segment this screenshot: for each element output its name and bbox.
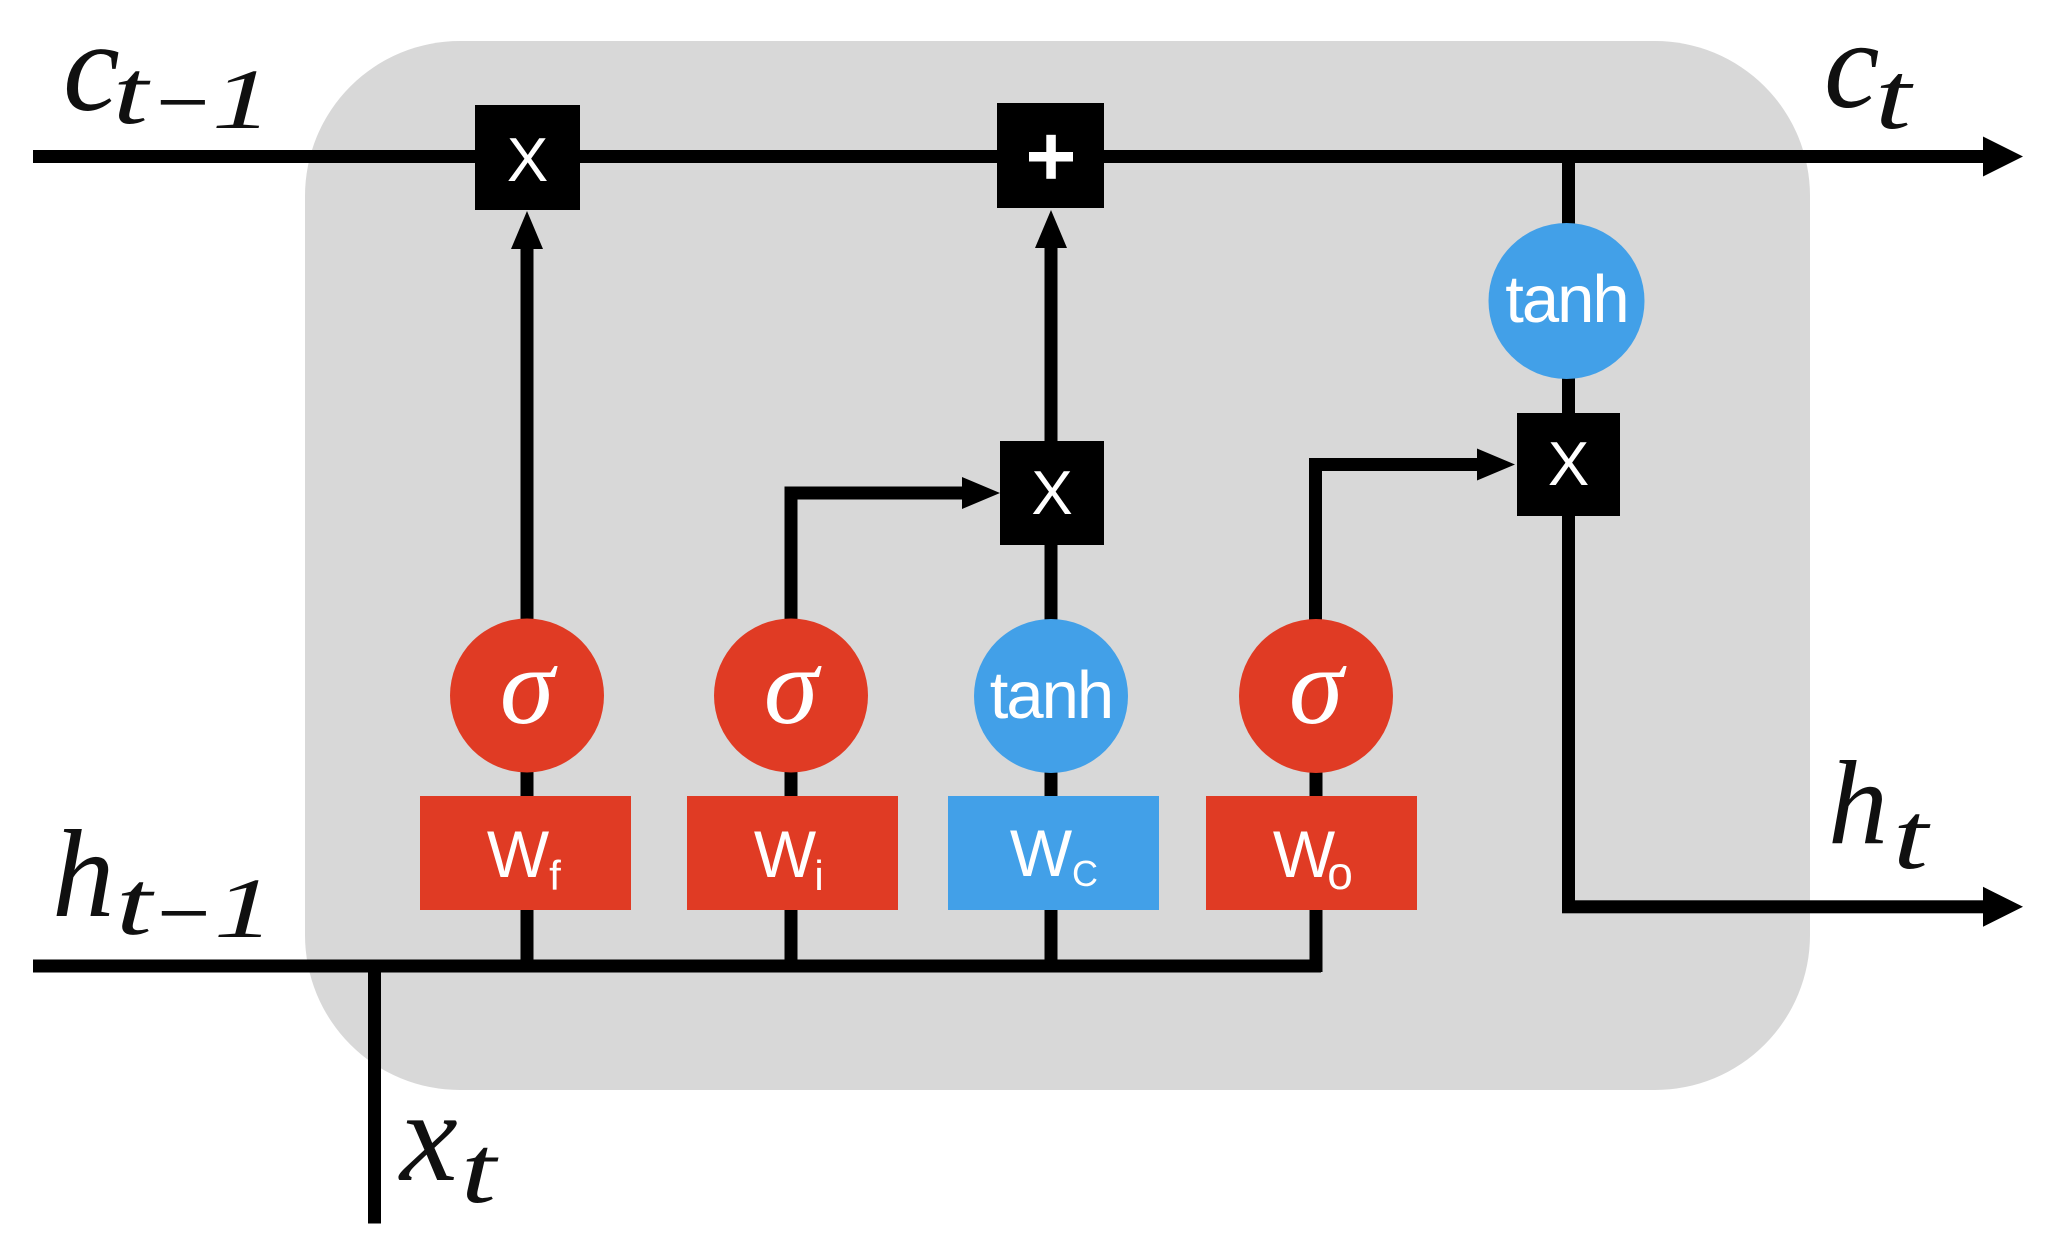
wire Wi to h(t-1) line bbox=[785, 908, 798, 963]
arrowhead into plus box bbox=[1035, 210, 1067, 248]
svg-text:h: h bbox=[1828, 736, 1888, 869]
sigma activation circle 4 (output gate) bbox=[1239, 619, 1393, 773]
svg-text:f: f bbox=[549, 852, 561, 899]
svg-text:X: X bbox=[1548, 430, 1589, 499]
multiply operator box 2 (input) bbox=[1000, 441, 1104, 545]
svg-text:W: W bbox=[1010, 816, 1073, 890]
svg-text:σ: σ bbox=[500, 625, 558, 747]
svg-text:1: 1 bbox=[214, 860, 274, 956]
svg-text:c: c bbox=[63, 0, 120, 138]
svg-text:−: − bbox=[151, 862, 215, 964]
svg-text:t: t bbox=[461, 1116, 499, 1223]
wire: c line down through tanh(top) to multiply box 4 bbox=[1562, 160, 1575, 225]
add operator box bbox=[997, 103, 1104, 208]
wire multiply box 4 down to h(t) line bbox=[1562, 514, 1575, 913]
svg-text:t: t bbox=[1875, 42, 1914, 149]
weight box Wi bbox=[687, 796, 898, 910]
sigma activation circle 2 (input gate) bbox=[714, 619, 868, 773]
svg-text:tanh: tanh bbox=[990, 658, 1112, 733]
svg-text:W: W bbox=[754, 817, 817, 891]
arrowhead c(t) bbox=[1983, 137, 2023, 177]
wire: candidate column vertical (multiply box 2 up to plus box) bbox=[1045, 248, 1058, 443]
wire sigma1 to Wf bbox=[521, 770, 534, 800]
wire: output gate column vertical (sigma4 up to bend) bbox=[1309, 458, 1322, 621]
weight box Wf bbox=[420, 796, 631, 910]
wire bend horizontal into multiply box 3 bbox=[1309, 458, 1481, 471]
weight box WC bbox=[948, 796, 1159, 910]
weight box Wo bbox=[1206, 796, 1417, 910]
wire tanh circle to WC bbox=[1045, 772, 1058, 800]
svg-text:tanh: tanh bbox=[1505, 262, 1627, 337]
multiply operator box 1 (forget) bbox=[475, 105, 580, 210]
wire x(t) vertical stub bbox=[368, 960, 381, 1224]
multiply operator box 3 (output) bbox=[1517, 413, 1620, 516]
svg-text:h: h bbox=[52, 806, 115, 944]
wire h(t) horizontal bbox=[1562, 900, 1985, 913]
svg-text:X: X bbox=[1031, 459, 1072, 528]
arrowhead into multiply box 1 bbox=[511, 211, 543, 249]
wire: input gate column vertical (sigma2 up to bend) bbox=[785, 487, 798, 621]
svg-text:σ: σ bbox=[1289, 625, 1347, 747]
wire sigma2 to Wi bbox=[785, 770, 798, 800]
wire WC to h(t-1) line bbox=[1045, 907, 1058, 963]
svg-text:σ: σ bbox=[764, 625, 822, 747]
svg-text:t: t bbox=[116, 852, 155, 954]
arrowhead h(t) bbox=[1983, 887, 2023, 927]
wire: forget gate column vertical (sigma1 up to multiply box) bbox=[521, 245, 534, 620]
wire h(t-1) bottom horizontal line bbox=[33, 960, 1321, 973]
arrowhead into multiply box 2 bbox=[962, 477, 1000, 509]
svg-text:t: t bbox=[113, 41, 151, 143]
sigma activation circle 1 (forget gate) bbox=[450, 619, 604, 773]
tanh activation circle (cell output, top right) bbox=[1489, 223, 1645, 379]
svg-text:W: W bbox=[487, 817, 550, 891]
svg-text:o: o bbox=[1327, 847, 1353, 899]
wire sigma4 to Wo bbox=[1310, 770, 1323, 800]
svg-text:1: 1 bbox=[212, 51, 272, 147]
svg-text:c: c bbox=[1824, 0, 1879, 135]
wire multiply box 2 down to tanh circle bbox=[1045, 543, 1058, 621]
svg-text:x: x bbox=[398, 1065, 458, 1209]
wire bend horizontal into multiply box 2 bbox=[785, 487, 965, 500]
wire Wf to h(t-1) line bbox=[521, 908, 534, 963]
tanh activation circle (candidate) bbox=[974, 619, 1128, 773]
svg-text:i: i bbox=[814, 852, 823, 899]
arrowhead into multiply box 3 bbox=[1477, 449, 1515, 481]
svg-text:C: C bbox=[1072, 853, 1098, 894]
plus glyph bbox=[1029, 152, 1073, 162]
LSTM cell body (gray rounded rectangle) bbox=[305, 41, 1810, 1090]
svg-text:t: t bbox=[1893, 783, 1931, 889]
wire c(t-1) -> c(t) top horizontal line bbox=[33, 150, 1984, 163]
svg-text:−: − bbox=[150, 51, 214, 153]
wire Wo down to h(t-1) line end bbox=[1310, 908, 1323, 972]
svg-text:X: X bbox=[507, 126, 548, 195]
